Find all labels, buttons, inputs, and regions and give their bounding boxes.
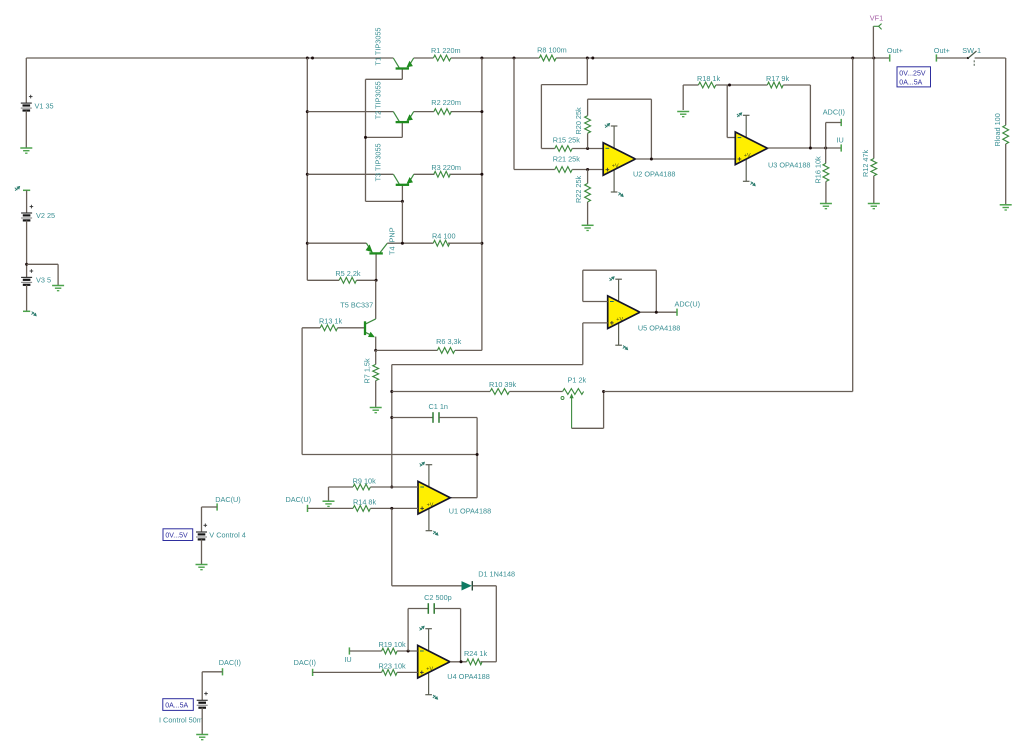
wire V2-V3 bbox=[26, 220, 28, 277]
wire U3 output row bbox=[768, 147, 842, 149]
svg-text:DAC(I): DAC(I) bbox=[219, 658, 241, 667]
node T4 base / T5 collector bbox=[375, 279, 378, 282]
label DAC(U) bbox=[286, 495, 312, 504]
resistor R12 47k bbox=[871, 159, 877, 176]
ground R22 bbox=[582, 225, 594, 230]
label R8 100m bbox=[537, 46, 567, 55]
resistor R2 220m bbox=[434, 109, 451, 115]
terminal IU (U3 out) bbox=[840, 144, 842, 151]
wire U5 minus bbox=[583, 301, 608, 303]
node junction R1 right bus bbox=[480, 57, 483, 60]
terminal DAC(I) source bbox=[222, 668, 224, 675]
wire R4 to bus bbox=[448, 242, 482, 244]
wire R10 to P1 bbox=[509, 391, 562, 393]
node junction R21 branch bbox=[513, 57, 516, 60]
resistor R24 1k bbox=[467, 659, 483, 665]
wire T4 row right bbox=[387, 242, 433, 244]
resistor R14 8k bbox=[353, 506, 370, 512]
wire R9 left to ground bbox=[329, 487, 354, 501]
wire R23 to U4 plus bbox=[397, 671, 418, 673]
svg-text:0V...25V: 0V...25V bbox=[899, 70, 926, 77]
wire T3 base node down to T4 bbox=[401, 201, 403, 243]
svg-text:DAC(U): DAC(U) bbox=[215, 495, 241, 504]
resistor R8 100m bbox=[539, 55, 556, 61]
wire T2 row bbox=[307, 111, 482, 113]
potentiometer P1 2k bbox=[561, 389, 584, 429]
svg-text:R16 10k: R16 10k bbox=[814, 156, 823, 184]
wire C2 branch bbox=[408, 609, 428, 652]
node U2 minus bbox=[586, 147, 589, 150]
annotation box 0A...5A bbox=[163, 699, 194, 711]
resistor R1 220m bbox=[433, 55, 450, 61]
label R15 25k bbox=[553, 135, 581, 144]
resistor Rload 100 bbox=[1003, 125, 1009, 144]
wire V1 bottom bbox=[25, 111, 27, 149]
node U1 plus bbox=[390, 507, 393, 510]
wire C1 left bbox=[392, 417, 433, 419]
svg-text:R7 1,5k: R7 1,5k bbox=[362, 358, 371, 383]
terminal DAC(I) input bbox=[312, 669, 314, 676]
node rbus R4 bbox=[480, 242, 483, 245]
wire sense node vertical bbox=[391, 365, 393, 487]
svg-text:R22 25k: R22 25k bbox=[574, 175, 583, 203]
svg-text:R2 220m: R2 220m bbox=[431, 98, 461, 107]
wire R21 from +rail bbox=[514, 58, 555, 170]
resistor R9 10k bbox=[353, 484, 370, 490]
svg-text:Rload 100: Rload 100 bbox=[993, 113, 1002, 146]
label R17 9k bbox=[766, 74, 789, 83]
wire left collector bus bbox=[306, 58, 308, 280]
svg-text:VF1: VF1 bbox=[870, 14, 883, 23]
node junction left bus / rail bbox=[306, 57, 314, 60]
wire R22 top lead bbox=[587, 170, 589, 184]
label IU (DAC side) bbox=[344, 655, 351, 664]
ground R18 bbox=[677, 112, 689, 117]
label VF1 bbox=[870, 14, 883, 23]
svg-text:T3 TIP3055: T3 TIP3055 bbox=[374, 143, 383, 181]
wire U1 output bbox=[450, 497, 477, 499]
ground R16 bbox=[820, 204, 832, 209]
svg-text:IU: IU bbox=[344, 655, 351, 664]
wire bus corner to R5 bbox=[307, 279, 339, 281]
node U3 out / R17 feedback bbox=[809, 147, 812, 150]
label R2 220m bbox=[431, 98, 461, 107]
wire Rload bottom bbox=[1005, 144, 1007, 204]
node U3 out / R16 bbox=[824, 147, 827, 150]
label R14 8k bbox=[353, 498, 376, 507]
node bus T3 bbox=[306, 173, 309, 176]
wire I Control 50m bottom bbox=[201, 708, 203, 734]
svg-text:R12 47k: R12 47k bbox=[861, 149, 870, 177]
wire R7 top bbox=[375, 350, 377, 364]
wire T5 emitter bbox=[375, 337, 377, 351]
resistor R19 10k bbox=[382, 648, 398, 654]
wire V3 bottom bbox=[26, 285, 28, 312]
svg-text:R24 1k: R24 1k bbox=[464, 649, 487, 658]
label U1 OPA4188 bbox=[449, 506, 491, 515]
svg-text:V2 25: V2 25 bbox=[36, 211, 55, 220]
svg-text:Out+: Out+ bbox=[934, 46, 950, 55]
svg-text:+V: +V bbox=[616, 317, 623, 323]
label R18 1k bbox=[697, 74, 720, 83]
svg-text:C1 1n: C1 1n bbox=[429, 402, 448, 411]
svg-text:SW: SW bbox=[962, 46, 974, 55]
svg-text:U5 OPA4188: U5 OPA4188 bbox=[638, 323, 680, 332]
svg-text:R14 8k: R14 8k bbox=[353, 498, 376, 507]
wire R17 to U3 output bbox=[783, 85, 810, 148]
node T5 emitter / R6 / R7 bbox=[374, 349, 377, 352]
wire right output bus bbox=[481, 58, 483, 350]
terminal Out+ (right) bbox=[935, 54, 937, 61]
ground I Control 50m bbox=[196, 735, 208, 740]
wire R12 top bbox=[873, 58, 875, 159]
wire DAC(I) to R23 bbox=[313, 671, 382, 673]
terminal ADC(U) bbox=[676, 309, 678, 316]
svg-text:P1 2k: P1 2k bbox=[568, 375, 587, 384]
svg-text:+V: +V bbox=[427, 502, 434, 508]
wire P1 to sense bus bbox=[604, 391, 853, 393]
ground R7 bbox=[370, 408, 382, 413]
label T1 TIP3055 bbox=[374, 28, 383, 66]
node C1 tap bbox=[390, 416, 393, 419]
wire R16 bottom bbox=[825, 182, 827, 204]
label C1 1n bbox=[429, 402, 448, 411]
label Out+ (right) bbox=[934, 46, 950, 55]
resistor R21 25k bbox=[555, 167, 572, 173]
wire R18 left bbox=[683, 85, 698, 110]
svg-text:T2 TIP3055: T2 TIP3055 bbox=[374, 81, 383, 119]
resistor R10 39k bbox=[490, 389, 509, 395]
label T2 TIP3055 bbox=[374, 81, 383, 119]
node T3 base corner bbox=[401, 200, 404, 203]
label U4 OPA4188 bbox=[447, 672, 489, 681]
node U2 output / R20 feedback bbox=[650, 158, 653, 161]
transistor T3 TIP3055 bbox=[366, 174, 414, 201]
svg-text:U3 OPA4188: U3 OPA4188 bbox=[768, 160, 810, 169]
wire P1 wiper to terminal bbox=[572, 392, 604, 429]
label DAC(I) source bbox=[219, 658, 241, 667]
svg-text:R5 2,2k: R5 2,2k bbox=[335, 269, 360, 278]
node U4 output bbox=[460, 660, 463, 663]
wire T5 collector bbox=[375, 280, 377, 319]
switch SW1 bbox=[967, 51, 977, 66]
wire R16 top bbox=[825, 148, 827, 163]
capacitor C2 500p bbox=[428, 603, 434, 614]
svg-text:ADC(I): ADC(I) bbox=[823, 108, 845, 117]
resistor R16 10k bbox=[823, 163, 829, 181]
label R9 10k bbox=[353, 476, 376, 485]
wire V2 top bbox=[26, 190, 28, 213]
wire DAC(I) source bbox=[202, 672, 222, 701]
svg-text:R23 10k: R23 10k bbox=[379, 662, 407, 671]
terminal IU input bbox=[348, 647, 350, 654]
svg-text:Out+: Out+ bbox=[887, 46, 903, 55]
label T3 TIP3055 bbox=[374, 143, 383, 181]
wire R15 to U2 minus bbox=[572, 148, 603, 150]
svg-text:DAC(I): DAC(I) bbox=[294, 658, 316, 667]
probe VF1 bbox=[873, 24, 881, 58]
label V Control 4 bbox=[209, 530, 246, 539]
node P1 right terminal bbox=[602, 390, 605, 393]
wire IU to R19 bbox=[349, 650, 381, 652]
svg-text:U1 OPA4188: U1 OPA4188 bbox=[449, 506, 491, 515]
label R19 10k bbox=[379, 640, 407, 649]
ground R12 bbox=[868, 204, 880, 209]
svg-text:R15 25k: R15 25k bbox=[553, 135, 581, 144]
transistor T2 TIP3055 bbox=[366, 112, 414, 138]
capacitor C1 1n bbox=[433, 412, 439, 423]
wire R20 top to U2 output bbox=[588, 99, 652, 159]
node R18/R17/U3 minus bbox=[728, 84, 731, 87]
svg-text:R1 220m: R1 220m bbox=[431, 46, 461, 55]
battery V3 bbox=[21, 269, 33, 285]
op-amp U1 OPA4188 bbox=[418, 462, 450, 536]
op-amp U4 OPA4188 bbox=[418, 626, 450, 700]
svg-text:0A...5A: 0A...5A bbox=[165, 702, 188, 709]
svg-text:DAC(U): DAC(U) bbox=[286, 495, 312, 504]
node U4 minus bbox=[407, 650, 410, 653]
svg-text:T4 IPNP: T4 IPNP bbox=[388, 227, 397, 255]
node bus T4 bbox=[306, 242, 309, 245]
wire R6 row bbox=[376, 349, 482, 351]
label ADC(I) bbox=[823, 108, 845, 117]
terminal ADC(I) bbox=[840, 119, 842, 126]
svg-text:R13 1k: R13 1k bbox=[319, 316, 342, 325]
wire R22 to ground bbox=[587, 202, 589, 225]
wire ADC(I) to node bbox=[826, 123, 842, 149]
wire U5 output bbox=[640, 311, 677, 313]
label R20 25k bbox=[574, 107, 583, 135]
node junction R8/R20 branch bbox=[586, 57, 595, 60]
resistor R3 220m bbox=[434, 171, 451, 177]
resistor R23 10k bbox=[382, 670, 398, 676]
terminal T-bar V3 bottom bbox=[23, 310, 30, 312]
svg-text:U4 OPA4188: U4 OPA4188 bbox=[447, 672, 489, 681]
label Rload 100 bbox=[993, 113, 1002, 146]
wire R13 branch to U1 out bbox=[302, 454, 477, 456]
label T4 IPNP bbox=[388, 227, 397, 255]
svg-text:R3 220m: R3 220m bbox=[431, 163, 461, 172]
svg-text:T5 BC337: T5 BC337 bbox=[340, 301, 373, 310]
svg-text:U2 OPA4188: U2 OPA4188 bbox=[633, 170, 675, 179]
op-amp U3 OPA4188 bbox=[735, 112, 767, 186]
svg-text:0V...5V: 0V...5V bbox=[165, 533, 188, 540]
wire T4 row left bbox=[307, 242, 366, 244]
wire U1 minus bbox=[392, 486, 418, 488]
resistor R22 25k bbox=[585, 183, 591, 202]
wire sense bus bbox=[852, 58, 854, 392]
wire U3 minus bbox=[727, 85, 735, 138]
svg-text:ADC(U): ADC(U) bbox=[675, 299, 701, 308]
label V2 25 bbox=[36, 211, 55, 220]
svg-text:V1 35: V1 35 bbox=[35, 101, 54, 110]
svg-text:R20 25k: R20 25k bbox=[574, 107, 583, 135]
node junction VF1 bbox=[872, 57, 875, 60]
battery V Control 4 bbox=[196, 524, 207, 540]
node U5 output bbox=[655, 311, 658, 314]
label R7 1,5k bbox=[362, 358, 371, 383]
node bus T2 bbox=[306, 110, 309, 113]
label DAC(U) source bbox=[215, 495, 241, 504]
node U2 plus bbox=[586, 168, 589, 171]
svg-text:R4 100: R4 100 bbox=[432, 232, 456, 241]
wire R9 right bbox=[370, 486, 391, 488]
diode D1 1N4148 bbox=[462, 581, 473, 590]
label R1 220m bbox=[431, 46, 461, 55]
terminal T-bar V2 top bbox=[23, 189, 30, 191]
svg-text:R18 1k: R18 1k bbox=[697, 74, 720, 83]
wire R7 bottom bbox=[375, 381, 377, 407]
battery V1 bbox=[21, 95, 33, 111]
wire U5 feedback loop bbox=[583, 270, 657, 312]
wire T3 row bbox=[307, 173, 482, 175]
wire R20 bottom lead bbox=[587, 133, 589, 148]
wire R18-R17 bbox=[716, 84, 768, 86]
wire R21 to U2 plus bbox=[572, 169, 603, 171]
svg-text:0A...5A: 0A...5A bbox=[899, 80, 922, 87]
node U1 feedback bbox=[476, 453, 479, 456]
terminal DAC(U) source bbox=[216, 503, 218, 510]
svg-text:R17 9k: R17 9k bbox=[766, 74, 789, 83]
node rbus R2 bbox=[480, 110, 483, 113]
resistor R4 100 bbox=[433, 240, 450, 246]
battery V2 bbox=[21, 205, 33, 221]
ground V1 bbox=[20, 148, 32, 153]
transistor T1 TIP3055 bbox=[366, 58, 414, 79]
svg-text:+V: +V bbox=[612, 164, 619, 170]
wire T1 emitter to R1 bbox=[0, 0, 1, 1]
resistor R7 1,5k bbox=[373, 364, 379, 380]
wire main +rail top bbox=[26, 57, 889, 59]
label R10 39k bbox=[489, 380, 517, 389]
resistor R6 3,3k bbox=[437, 348, 454, 354]
wire Out+ to SW1 bbox=[936, 57, 967, 59]
resistor R13 1k bbox=[320, 325, 337, 331]
svg-text:R9 10k: R9 10k bbox=[353, 476, 376, 485]
op-amp U5 OPA4188 bbox=[608, 276, 640, 350]
resistor R17 9k bbox=[767, 82, 783, 88]
wire C2 right to U4 out bbox=[434, 609, 460, 662]
node U1 minus bbox=[390, 486, 393, 489]
wire V1 top bbox=[25, 58, 27, 103]
wire U5 plus bbox=[392, 323, 608, 365]
label P1 2k bbox=[568, 375, 587, 384]
wire D1 cathode to R24 bbox=[473, 586, 497, 662]
node junction sense bus bbox=[851, 57, 854, 60]
label R6 3,3k bbox=[436, 337, 461, 346]
svg-text:T1 TIP3055: T1 TIP3055 bbox=[374, 28, 383, 66]
label SW1 bbox=[962, 46, 981, 55]
wire U2 output bbox=[635, 158, 735, 160]
label ADC(U) bbox=[675, 299, 701, 308]
label R24 1k bbox=[464, 649, 487, 658]
wire R13 right to T5 base bbox=[338, 327, 364, 329]
resistor R15 25k bbox=[555, 146, 572, 152]
wire R5 to T4 base bbox=[357, 279, 377, 281]
ground R9 bbox=[323, 501, 335, 506]
label DAC(I) right bbox=[294, 658, 316, 667]
wire R10 left bbox=[392, 391, 490, 393]
label T5 BC337 bbox=[340, 301, 373, 310]
label R4 100 bbox=[432, 232, 456, 241]
svg-text:D1 1N4148: D1 1N4148 bbox=[478, 569, 515, 578]
node V2/V3 midpoint bbox=[25, 263, 28, 266]
wire DAC(U) to R14 bbox=[308, 507, 354, 509]
wire R12 bottom bbox=[873, 176, 875, 203]
wire R8 node down-left to R15 bbox=[541, 58, 587, 149]
power arrow V+ supply bbox=[15, 186, 20, 191]
resistor R5 2,2k bbox=[339, 277, 356, 283]
svg-text:IU: IU bbox=[837, 136, 844, 145]
wire U1 plus down to D1 bbox=[392, 508, 462, 585]
wire R13 left bbox=[302, 328, 320, 455]
svg-text:V Control 4: V Control 4 bbox=[209, 530, 246, 539]
annotation box 0V...25V / 0A...5A bbox=[897, 67, 931, 87]
label Out+ (left) bbox=[887, 46, 903, 55]
svg-text:R19 10k: R19 10k bbox=[379, 640, 407, 649]
label U2 OPA4188 bbox=[633, 170, 675, 179]
wire V Control 4 bottom bbox=[201, 539, 203, 564]
transistor T5 BC337 bbox=[365, 319, 376, 337]
label R13 1k bbox=[319, 316, 342, 325]
terminal Out+ (left) bbox=[889, 54, 891, 61]
svg-text:R21 25k: R21 25k bbox=[553, 155, 581, 164]
label R5 2,2k bbox=[335, 269, 360, 278]
power arrow V- supply bbox=[31, 312, 36, 317]
wire SW1 to Rload bbox=[975, 58, 1006, 125]
label R22 25k bbox=[574, 175, 583, 203]
resistor R18 1k bbox=[698, 82, 715, 88]
terminal DAC(U) bbox=[307, 505, 309, 512]
battery I Control 50m bbox=[197, 692, 208, 708]
label R23 10k bbox=[379, 662, 407, 671]
svg-text:C2 500p: C2 500p bbox=[424, 593, 452, 602]
wire mid to ground bbox=[27, 264, 58, 285]
wire R14 to U1 plus bbox=[370, 507, 418, 509]
label R12 47k bbox=[861, 149, 870, 177]
ground Rload bbox=[1000, 205, 1012, 210]
label R3 220m bbox=[431, 163, 461, 172]
wire U4 output bbox=[450, 661, 467, 663]
label I Control 50m bbox=[159, 715, 203, 724]
wire DAC(U) source bbox=[202, 507, 218, 532]
ground supply mid bbox=[52, 286, 64, 291]
label C2 500p bbox=[424, 593, 452, 602]
node T4/R4 bbox=[401, 242, 404, 245]
transistor T4 IPNP bbox=[366, 243, 388, 280]
label D1 1N4148 bbox=[478, 569, 515, 578]
label R16 10k bbox=[814, 156, 823, 184]
label U5 OPA4188 bbox=[638, 323, 680, 332]
svg-text:R10 39k: R10 39k bbox=[489, 380, 517, 389]
svg-text:R6 3,3k: R6 3,3k bbox=[436, 337, 461, 346]
wire base bus T1-T3 bbox=[365, 79, 367, 201]
label IU (U3 out) bbox=[837, 136, 844, 145]
annotation box 0V...5V bbox=[163, 529, 193, 541]
node R10 tap bbox=[390, 390, 393, 393]
label V3 5 bbox=[36, 276, 51, 285]
resistor R20 25k bbox=[585, 116, 591, 134]
svg-text:I Control 50m: I Control 50m bbox=[159, 715, 203, 724]
svg-text:+V: +V bbox=[426, 666, 433, 672]
label R21 25k bbox=[553, 155, 581, 164]
op-amp U2 OPA4188 bbox=[603, 123, 635, 197]
svg-text:1: 1 bbox=[977, 46, 981, 55]
node rbus R3 bbox=[480, 173, 483, 176]
ground V Control 4 bbox=[196, 565, 208, 570]
wire C1 right to U1 out bbox=[439, 418, 477, 498]
svg-text:R8 100m: R8 100m bbox=[537, 46, 567, 55]
